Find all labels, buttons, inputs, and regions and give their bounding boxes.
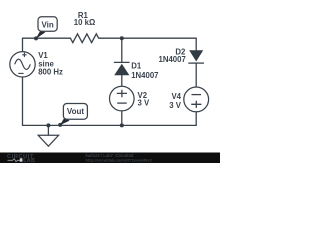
voltage source V2 circle (110, 86, 135, 111)
flag Vout box (63, 104, 87, 120)
node Vout junction dot (58, 123, 62, 127)
svg-text:Vout: Vout (67, 107, 85, 116)
ground (38, 135, 58, 146)
voltage source V4 circle (184, 87, 209, 112)
wire top-right: R1 right to D2 top corner (101, 38, 196, 50)
wire D1 to V2 (121, 75, 123, 86)
svg-text:3 V: 3 V (138, 99, 151, 108)
footer bar (0, 153, 220, 164)
flag Vin pointer (36, 30, 46, 39)
resistor R1 (70, 34, 101, 43)
svg-text:Vin: Vin (41, 20, 53, 29)
wire ground stem (47, 125, 49, 135)
wire D2 to V4 (195, 63, 197, 87)
voltage source V1 circle (10, 52, 35, 77)
node ground junction dot (46, 123, 50, 127)
diode D1 (114, 62, 130, 75)
svg-text:1N4007: 1N4007 (158, 55, 185, 64)
svg-text:LAB: LAB (23, 158, 35, 164)
diode D2 (188, 50, 204, 63)
V2 plus sign (117, 90, 127, 97)
svg-text:D1: D1 (131, 61, 142, 70)
wire V2 bottom to bottom rail (121, 111, 123, 126)
wire bottom: V4 bottom, bottom rail, up to V1 bottom (23, 77, 197, 125)
V4 minus sign (192, 94, 202, 96)
V1 plus sign (22, 53, 26, 57)
V4 plus sign (191, 101, 201, 108)
node Vin junction dot (34, 36, 38, 40)
node V2 bottom junction dot (120, 123, 124, 127)
svg-text:3 V: 3 V (169, 101, 182, 110)
wire top-left corner: V1 top to R1 left (23, 38, 71, 52)
V1 sine symbol (15, 59, 31, 69)
svg-text:800 Hz: 800 Hz (38, 68, 63, 77)
wire D1 branch: top rail to D1 (121, 38, 123, 62)
flag Vout pointer (60, 117, 70, 125)
flag Vin box (38, 17, 57, 31)
node D1 top junction dot (120, 36, 124, 40)
svg-text:10 kΩ: 10 kΩ (74, 18, 95, 27)
V2 minus sign (117, 102, 127, 104)
svg-text:1N4007: 1N4007 (131, 71, 158, 80)
V1 minus sign (18, 72, 23, 74)
svg-text:http://circuitlab.com/c/f72euw: http://circuitlab.com/c/f72euwt48v2 (86, 157, 153, 162)
footer CircuitLab logo (7, 154, 35, 164)
